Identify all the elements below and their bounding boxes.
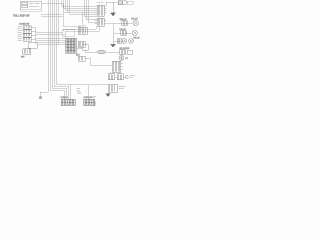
node splice S1 xyxy=(39,96,42,99)
switch SW3 xyxy=(23,34,31,37)
wire y16.2 xyxy=(41,15,63,17)
wire harness w4b x69.5 xyxy=(70,0,98,14)
big connector B hatched xyxy=(66,38,77,53)
wire bus v6 x58 xyxy=(57,0,59,44)
wire lamp row2 branch xyxy=(113,32,132,34)
wire oval to row4 xyxy=(106,51,120,53)
spoked lamp J xyxy=(119,56,124,61)
ground G2 xyxy=(111,44,116,47)
ground G1 xyxy=(110,13,115,16)
fuse box FB1 lower strip xyxy=(20,9,41,11)
motor M1 tail box xyxy=(127,1,133,4)
wire E to F xyxy=(85,58,112,65)
svg-text:CONN B: CONN B xyxy=(84,97,93,99)
motor M1 circle xyxy=(123,1,127,5)
wire bus v4 x54 xyxy=(54,0,68,99)
wire connector bottom left drop b xyxy=(65,26,99,38)
connector C-L1 xyxy=(122,21,128,25)
wire F2b to circle xyxy=(123,76,125,78)
wire lamp bus vertical x113 xyxy=(112,23,114,42)
connector U1 side ticks xyxy=(95,8,107,14)
connector G2 xyxy=(84,99,95,106)
tiny symbol S2 xyxy=(92,102,96,105)
connector C hatched xyxy=(78,42,85,48)
connector U2 side ticks xyxy=(95,20,107,23)
box row4 right xyxy=(127,50,133,54)
relay A label xyxy=(79,25,87,27)
switch SW2 xyxy=(23,30,31,33)
fuse box FB1 cell A xyxy=(22,2,28,4)
wire stack h3 y38 xyxy=(36,37,67,39)
svg-text:CONN A: CONN A xyxy=(61,96,70,99)
svg-text:COMB SW: COMB SW xyxy=(19,24,29,26)
switch SW3 label xyxy=(18,35,23,36)
wire top feed y2 xyxy=(104,2,118,6)
svg-text:SW: SW xyxy=(21,57,24,59)
switch SW4 xyxy=(23,38,31,41)
fuse box FB1 dashes row1 xyxy=(30,2,40,4)
wire lamp bus feed xyxy=(104,22,133,24)
fuse box FB1 outer xyxy=(20,1,41,9)
wire pair y14.5 xyxy=(41,14,63,16)
wire stack h1 y32 xyxy=(36,31,64,33)
resistor box R1 xyxy=(29,42,38,48)
wire B to D a xyxy=(76,45,82,47)
box D xyxy=(82,45,88,51)
wire stack h4 y40 xyxy=(36,39,67,41)
connector U1 xyxy=(97,5,104,16)
splice text right xyxy=(91,96,97,98)
fuse box FB1 cell B xyxy=(22,5,28,7)
wire stack h5 y44 xyxy=(37,43,66,45)
lamp L2 xyxy=(132,30,137,35)
wire bus v2 x50 xyxy=(50,0,64,99)
connector C-L3 xyxy=(117,39,122,43)
wire lamp row3 branch xyxy=(113,40,123,42)
junction box K outline xyxy=(63,12,82,26)
wire vertical x63 xyxy=(62,4,64,13)
wire D down to oval xyxy=(85,50,97,52)
label F2 xyxy=(130,76,136,78)
tiny circle splice xyxy=(78,92,80,94)
stack right rail xyxy=(31,27,35,44)
wire bus v5 x56 xyxy=(56,0,70,99)
fuse box FB1 dashes row2 xyxy=(29,6,40,8)
connector F hatched xyxy=(112,61,121,72)
wire long y84.5 xyxy=(70,84,108,86)
connector F side ticks xyxy=(121,63,124,69)
relay A hatched xyxy=(78,27,87,34)
wire branch x88 down xyxy=(87,85,89,100)
tiny splice marks xyxy=(77,89,81,91)
switch SW4 label xyxy=(18,39,23,40)
wire F2a to F2b xyxy=(115,76,118,78)
wire harness w1 x61.5 xyxy=(62,0,98,6)
component L lower xyxy=(23,49,31,55)
svg-text:RR CONN: RR CONN xyxy=(120,48,130,50)
lamp L1 xyxy=(133,20,138,25)
connector U2 xyxy=(97,18,104,26)
wire B to D b xyxy=(76,48,82,50)
wire fusebox to node x63 top xyxy=(41,3,63,5)
label above U1 xyxy=(97,1,104,3)
connector F2b hatched xyxy=(117,74,123,80)
inline connector oval xyxy=(97,50,106,54)
relay H label xyxy=(119,87,127,89)
mid box outline xyxy=(62,30,75,37)
wire harness w4 x67.5 xyxy=(68,0,98,12)
ground G3 xyxy=(106,94,111,97)
connector C-L2 xyxy=(121,31,127,35)
wire harness w7 x88 xyxy=(88,0,97,22)
wire bus v3 x52 xyxy=(52,0,66,99)
svg-text:RR LP: RR LP xyxy=(134,38,141,40)
switch SW1 xyxy=(23,26,31,29)
relay H xyxy=(108,85,118,93)
svg-text:RLY: RLY xyxy=(76,55,81,57)
switch SW1 label xyxy=(18,27,23,28)
ground G3 stem xyxy=(107,92,109,94)
connector G1 xyxy=(61,99,75,106)
connector F2a hatched xyxy=(108,74,115,80)
lamp L3 xyxy=(122,39,133,44)
wire harness w6 x86 xyxy=(86,0,97,20)
wire connector bottom left drop a xyxy=(63,26,96,31)
switch SW2 label xyxy=(18,31,23,32)
wire harness w3 x65.5 xyxy=(66,0,98,10)
relay E hatched xyxy=(78,56,85,61)
connector row4 xyxy=(120,50,126,55)
wire stack h2 y34 xyxy=(36,33,66,35)
wire harness w2 x63.5 xyxy=(64,0,98,8)
wire F down xyxy=(111,72,114,74)
svg-text:RR LP: RR LP xyxy=(132,19,139,21)
motor M1 block xyxy=(118,1,123,5)
ground G2 stem xyxy=(112,42,114,45)
wire ground stem x113 xyxy=(112,2,114,13)
wire stack h6 y42 xyxy=(37,41,66,43)
wire harness w5 x84 xyxy=(84,0,97,16)
wire bus v1 x48 xyxy=(40,0,48,96)
splice circle F2 xyxy=(125,75,128,78)
svg-text:TAIL LAMP SW: TAIL LAMP SW xyxy=(13,15,30,18)
